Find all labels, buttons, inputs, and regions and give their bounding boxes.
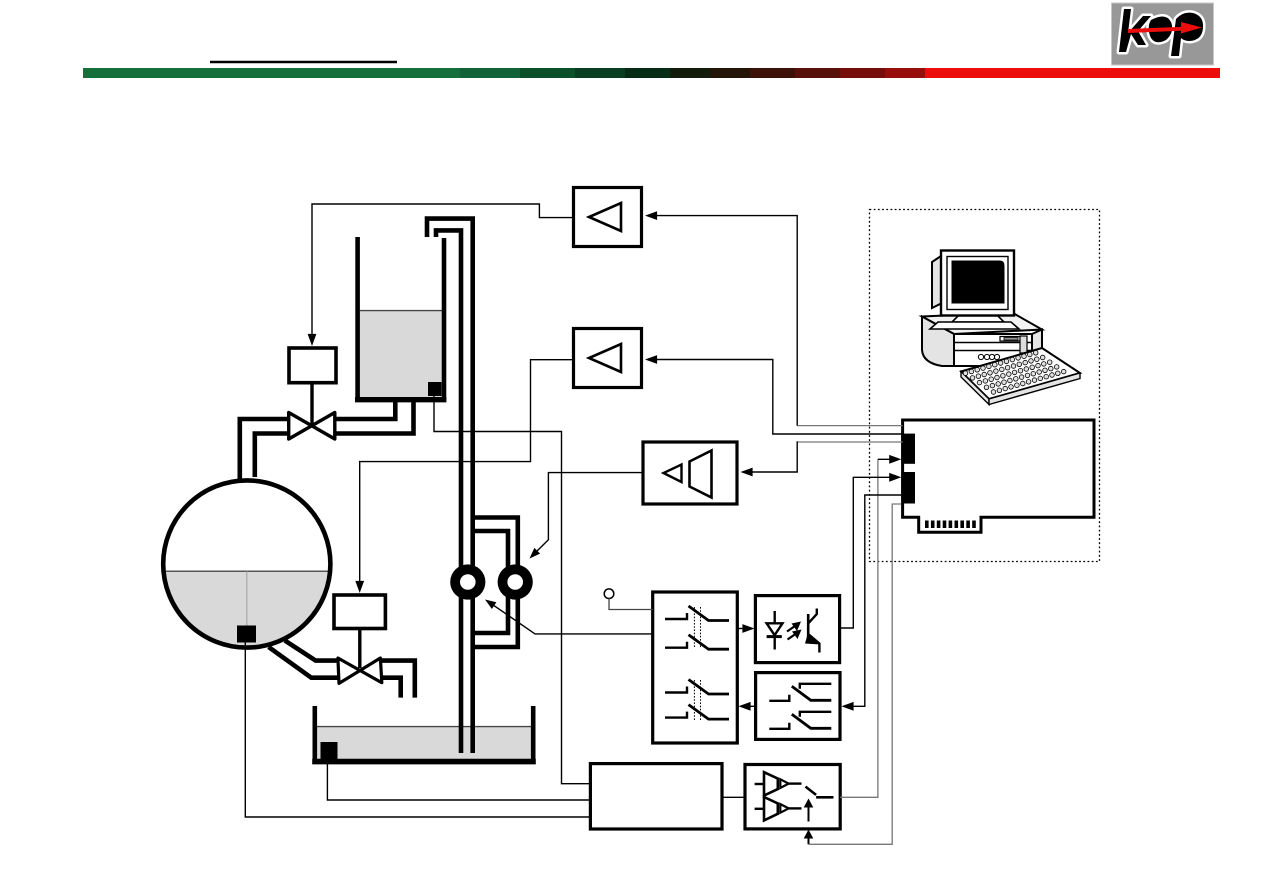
wire A3 to pump P2 — [530, 473, 644, 559]
spherical tank — [163, 480, 330, 648]
wire card to amplifier A2 — [645, 355, 903, 434]
wire A2 to actuator M2 — [355, 360, 573, 593]
collection tank level sensor — [321, 742, 338, 759]
wire card to power amp A3 — [741, 441, 903, 476]
wire card to S1 switch control — [809, 504, 902, 844]
card connector J1 — [901, 434, 915, 464]
wire A1 to actuator M1 — [308, 204, 574, 346]
valve V1 stem — [310, 383, 313, 424]
wire card to amplifier A1 — [645, 211, 903, 425]
optocoupler U2 — [755, 596, 839, 663]
pipe: sphere outlet to valve V2 — [269, 647, 340, 678]
pipe: sphere to valve V1 to upper tank — [240, 419, 288, 482]
amplifier A2 — [574, 329, 642, 388]
bypass loop inner — [473, 531, 508, 633]
I/O interface card U1 — [903, 420, 1094, 532]
pipe V1 to upper tank — [335, 399, 395, 419]
valve V2 stem — [358, 629, 361, 669]
upper tank level sensor — [428, 382, 442, 396]
card connector J2 — [901, 472, 915, 504]
bypass loop outer — [473, 518, 518, 648]
collection tank — [312, 706, 536, 762]
pipe V1 to upper tank inner — [335, 399, 414, 434]
pump P1 — [450, 564, 485, 599]
input terminal circle — [604, 589, 614, 599]
valve V2 — [338, 658, 382, 683]
wire K1 to optocoupler U2 — [737, 624, 754, 633]
driver/switch box S1 — [745, 765, 840, 829]
pipe inner line (sphere-V1) — [255, 434, 288, 478]
actuator M2 — [334, 595, 385, 629]
title underline — [210, 61, 397, 64]
kep logo — [1112, 3, 1214, 65]
wire collection tank sensor to signal box — [327, 759, 590, 800]
riser pipe outer — [427, 219, 473, 753]
computer-system dashed enclosure — [870, 210, 1100, 562]
riser pipe inner — [436, 230, 461, 753]
wire upper tank sensor to signal box — [434, 395, 590, 784]
computer PC — [922, 251, 1042, 367]
upper feed tank — [355, 237, 446, 400]
actuator M1 — [289, 348, 336, 383]
relay contact box K2 — [756, 673, 840, 740]
header color bar — [83, 68, 1220, 78]
pump P2 — [498, 564, 533, 599]
wire signal box to S1 — [722, 796, 745, 798]
pipe: V2 to drain spout — [381, 661, 415, 698]
wire card to contact box K2 — [842, 495, 903, 711]
power amplifier A3 — [643, 442, 737, 504]
valve V1 — [289, 413, 335, 440]
wire sphere sensor to signal box — [245, 642, 590, 817]
wire terminal to K1 — [609, 599, 653, 610]
wire S1 output to card (digital in) — [840, 455, 901, 797]
sphere level sensor — [237, 626, 256, 643]
drain spout inner — [381, 678, 401, 698]
relay box K1 — [653, 592, 738, 743]
arrow into S1 from below — [804, 830, 814, 845]
signal conditioning box — [590, 764, 722, 829]
wire K2 to K1 — [739, 702, 756, 711]
amplifier A1 — [574, 188, 642, 247]
wire U2 output to card — [840, 473, 902, 628]
computer keyboard — [961, 348, 1080, 405]
wire pump P1 to relay box K1 — [485, 600, 653, 634]
sphere outlet inner line — [285, 641, 339, 661]
